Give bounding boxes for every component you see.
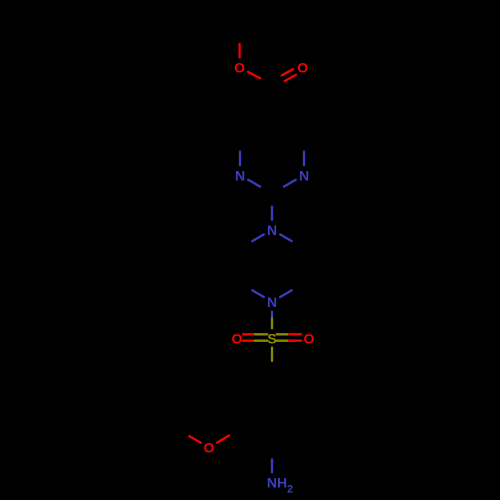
wire: O-C(carbonyl) bond red half	[248, 72, 260, 78]
wire: piperazine C-N lower-left bond blue half	[252, 290, 263, 297]
svg-text:N: N	[267, 294, 277, 310]
svg-text:NH: NH	[267, 474, 287, 490]
svg-text:N: N	[299, 168, 309, 184]
svg-text:O: O	[231, 330, 242, 346]
svg-text:O: O	[204, 440, 215, 456]
wire: S=O left double bond lower line red half	[243, 340, 255, 342]
wire: N3-C2 bond blue half	[248, 180, 260, 187]
wire: piperazine C-N lower-right bond blue half	[280, 290, 292, 297]
svg-text:O: O	[297, 59, 308, 75]
svg-text:N: N	[235, 168, 245, 184]
wire: S-C(phenyl) bond olive half	[271, 348, 273, 361]
wire: pyrimidine C4-N3 bond blue half	[239, 152, 241, 166]
wire: piperazine N-C upper-right bond blue half	[280, 234, 292, 241]
wire: S=O right double bond lower line red half	[289, 340, 301, 342]
wire: S=O left double bond lower line olive half	[255, 340, 267, 342]
wire: S=O right double bond upper line red half	[289, 333, 301, 335]
svg-text:O: O	[234, 59, 245, 75]
wire: phenyl C4-N(amine) bond blue half	[271, 459, 273, 472]
wire: pyrimidine C6-N1 bond blue half	[303, 152, 305, 166]
wire: S=O left double bond upper line olive half	[255, 333, 267, 335]
svg-text:O: O	[304, 330, 315, 346]
svg-text:2: 2	[287, 483, 293, 495]
svg-text:S: S	[267, 330, 276, 346]
wire: phenyl C5-O(methoxy) bond red half	[217, 436, 229, 443]
wire: S=O right double bond lower line olive half	[277, 340, 289, 342]
wire: C=O double bond upper line red half	[282, 69, 293, 75]
wire: N1-C2 bond blue half	[284, 180, 296, 187]
wire: N-S bond olive half	[271, 318, 273, 328]
wire: C=O double bond lower line red half	[285, 75, 296, 81]
wire: S=O right double bond upper line olive half	[277, 333, 289, 335]
wire: N-S bond blue half	[271, 312, 273, 319]
wire: S=O left double bond upper line red half	[243, 333, 255, 335]
wire: C2-N(piperazine) bond blue half	[271, 207, 273, 220]
wire: ester methyl C-O bond (red half near O)	[238, 44, 240, 57]
svg-text:N: N	[267, 222, 277, 238]
wire: O(methoxy)-CH3 bond red half	[189, 436, 201, 443]
wire: piperazine N-C upper-left bond blue half	[252, 234, 263, 241]
